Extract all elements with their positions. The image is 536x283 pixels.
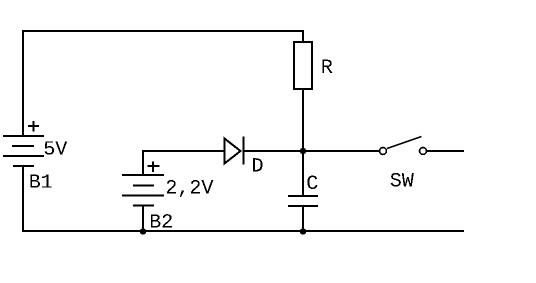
wire B2 top lead [142,150,144,176]
label D [253,158,262,171]
label B1 [30,175,51,188]
label 5V [45,141,68,154]
B1 plus sign [28,121,39,132]
label 2,2V [167,180,213,197]
battery B1 [3,135,44,167]
wire switch right lead [427,150,464,152]
wire top rail [22,30,304,32]
label SW [391,173,414,187]
junction B2-bottom rail [140,228,147,235]
B2 plus sign [148,161,160,172]
wire diode to junction [245,150,303,152]
label R [322,60,332,73]
junction C-bottom rail [300,228,307,235]
wire R top lead [302,30,304,41]
wire B1 positive lead [22,30,24,135]
wire R bottom lead [302,90,304,151]
switch SW [380,137,427,155]
resistor R [294,42,312,89]
label B2 [151,214,172,227]
wire junction to capacitor [302,151,304,196]
wire junction to switch [303,150,379,152]
diode D [225,137,245,165]
wire bottom rail [22,230,464,232]
junction diode-R-C-SW node [300,148,307,155]
label C [307,176,317,190]
battery B2 [122,174,164,207]
wire B2 to diode [142,150,224,152]
wire B2 negative lead [142,206,144,232]
wire capacitor bottom lead [302,207,304,232]
wire B1 negative lead [22,166,24,232]
capacitor C [288,195,318,207]
